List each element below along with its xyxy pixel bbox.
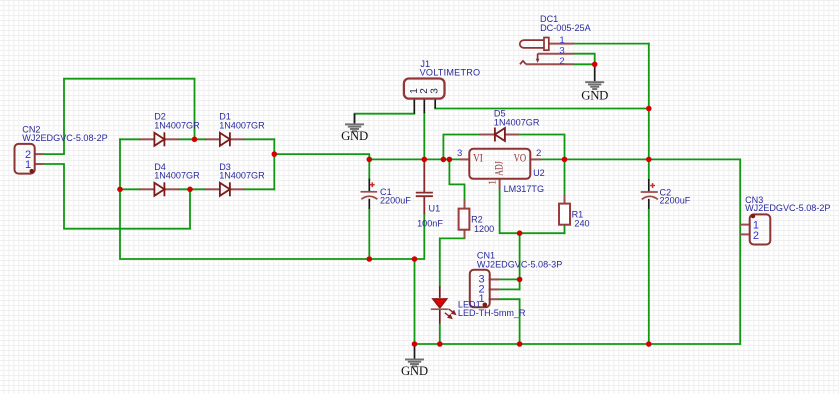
svg-text:2: 2 [753,230,759,242]
svg-text:3: 3 [559,45,564,56]
svg-text:1N4007GR: 1N4007GR [154,120,200,130]
svg-text:3: 3 [457,148,462,159]
svg-text:VO: VO [514,153,527,165]
svg-text:2: 2 [536,148,541,159]
svg-text:VI: VI [473,153,483,165]
svg-text:VOLTIMETRO: VOLTIMETRO [420,68,481,78]
svg-text:WJ2EDGVC-5.08-2P: WJ2EDGVC-5.08-2P [22,133,107,143]
svg-text:GND: GND [401,364,428,378]
svg-text:100nF: 100nF [417,218,443,228]
svg-text:2: 2 [559,56,564,67]
svg-text:1: 1 [479,293,485,305]
svg-text:LM317TG: LM317TG [504,184,544,194]
svg-text:GND: GND [341,129,368,143]
svg-text:WJ2EDGVC-5.08-3P: WJ2EDGVC-5.08-3P [477,259,562,269]
svg-text:1: 1 [25,159,31,171]
svg-text:GND: GND [581,88,608,102]
svg-text:1N4007GR: 1N4007GR [154,170,200,180]
svg-text:1N4007GR: 1N4007GR [494,117,540,127]
svg-text:1: 1 [487,180,498,185]
svg-text:3: 3 [429,88,440,94]
svg-text:1: 1 [559,35,564,46]
svg-text:240: 240 [574,218,589,228]
svg-text:DC-005-25A: DC-005-25A [540,23,591,33]
svg-text:R2: R2 [471,214,483,224]
svg-text:U1: U1 [429,204,441,214]
svg-text:LED-TH-5mm_R: LED-TH-5mm_R [458,308,526,318]
svg-text:1N4007GR: 1N4007GR [219,120,265,130]
svg-text:1200: 1200 [474,224,494,234]
svg-text:1N4007GR: 1N4007GR [219,170,265,180]
svg-text:2200uF: 2200uF [660,196,691,206]
svg-text:WJ2EDGVC-5.08-2P: WJ2EDGVC-5.08-2P [745,203,830,213]
svg-text:2200uF: 2200uF [380,196,411,206]
svg-text:ADJ: ADJ [493,161,505,176]
svg-text:U2: U2 [533,168,545,178]
